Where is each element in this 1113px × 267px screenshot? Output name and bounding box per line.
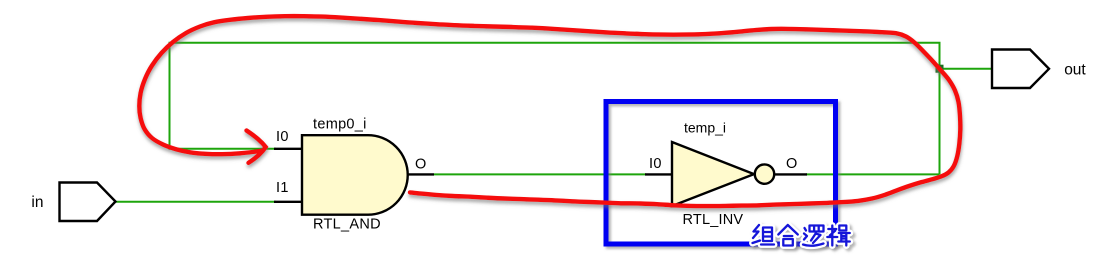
red arrowhead barb xyxy=(247,131,266,163)
inverter bubble xyxy=(755,164,774,183)
wire net out: top feedback horizontal xyxy=(170,43,940,175)
svg-text:in: in xyxy=(31,194,43,211)
wire in to I1 xyxy=(116,201,276,203)
svg-text:temp0_i: temp0_i xyxy=(313,116,367,132)
input port in xyxy=(31,183,115,222)
svg-text:O: O xyxy=(415,157,426,173)
pin stub O xyxy=(774,173,807,175)
red freehand annotation loop xyxy=(139,16,960,206)
pin stub I0 xyxy=(645,173,672,175)
and-gate temp0_i body xyxy=(274,116,434,232)
svg-text:RTL_INV: RTL_INV xyxy=(683,212,744,228)
pin stub O xyxy=(407,173,434,175)
annotation text 组合逻辑 (hand-drawn strokes) xyxy=(753,225,850,246)
wire branch to out port xyxy=(940,68,994,70)
inverter temp_i body xyxy=(645,120,807,228)
svg-text:I1: I1 xyxy=(276,180,289,196)
annotation blue box around inverter xyxy=(606,102,836,245)
pin stub I1 xyxy=(274,201,302,203)
svg-text:O: O xyxy=(786,156,797,172)
svg-text:I0: I0 xyxy=(276,129,289,145)
svg-text:out: out xyxy=(1064,62,1086,79)
wire INV O to vertical xyxy=(806,173,940,175)
output port out xyxy=(992,50,1086,89)
svg-text:RTL_AND: RTL_AND xyxy=(313,217,381,233)
pin stub I0 xyxy=(274,148,302,150)
svg-text:I0: I0 xyxy=(649,156,662,172)
junction dot at x940 y70 xyxy=(936,65,944,73)
wire AND O to INV I0 xyxy=(434,173,646,175)
svg-text:temp_i: temp_i xyxy=(684,120,726,136)
wire feedback to I0 xyxy=(169,148,277,150)
